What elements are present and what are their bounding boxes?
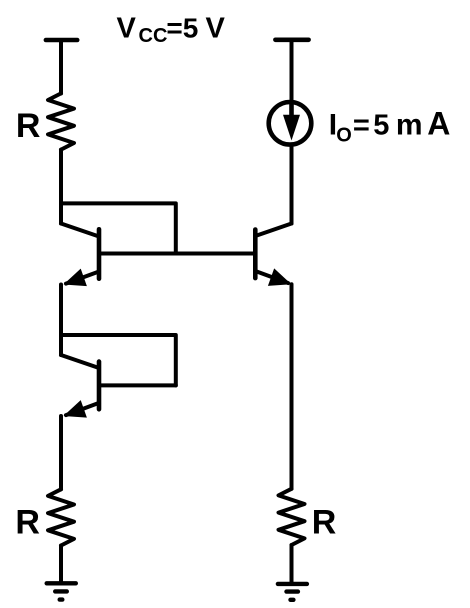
- wire: [290, 146, 294, 224]
- svg-text:V: V: [206, 12, 226, 44]
- svg-text:=: =: [353, 110, 370, 142]
- wire Q2 base stub: [99, 383, 176, 387]
- power rail VCC right: [275, 37, 308, 42]
- label VCC=5 V: [117, 12, 226, 47]
- transistor Q3: [255, 224, 291, 286]
- wire: [290, 545, 294, 584]
- svg-text:5: 5: [373, 110, 389, 142]
- svg-text:R: R: [312, 504, 337, 542]
- wire: [59, 285, 63, 356]
- resistor R1: [48, 93, 74, 149]
- svg-text:V: V: [117, 12, 137, 44]
- ground left: [47, 583, 76, 599]
- wire Q1 collector-base tie: [61, 203, 176, 253]
- svg-text:CC: CC: [139, 25, 168, 47]
- current source IO: [269, 102, 312, 145]
- wire: [59, 546, 63, 584]
- svg-text:R: R: [16, 107, 41, 145]
- wire: [59, 40, 63, 94]
- svg-text:A: A: [427, 106, 450, 142]
- power rail VCC left: [46, 38, 77, 43]
- svg-text:R: R: [15, 504, 40, 542]
- label IO=5 mA: [329, 106, 451, 147]
- wire: [290, 284, 294, 489]
- wire: [59, 150, 63, 224]
- transistor Q2: [61, 355, 99, 418]
- transistor Q1: [61, 224, 99, 287]
- resistor R3: [279, 489, 305, 545]
- wire: [290, 40, 294, 101]
- svg-text:m: m: [396, 109, 423, 142]
- svg-text:O: O: [336, 125, 352, 147]
- wire base bus Q1 to Q3: [99, 252, 255, 256]
- resistor R2: [48, 489, 74, 545]
- svg-text:=5: =5: [166, 12, 198, 43]
- wire: [59, 416, 63, 489]
- wire Q2 collector-base tie: [61, 335, 176, 385]
- ground right: [278, 584, 307, 600]
